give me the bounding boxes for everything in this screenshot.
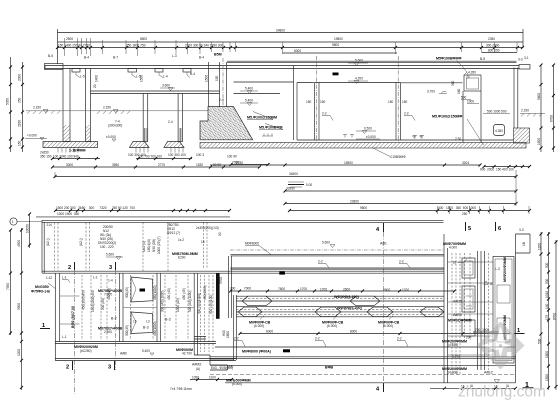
left bold labels [31, 276, 56, 294]
svg-text:7000: 7000 [244, 287, 251, 291]
dim row 6000 8000 [239, 330, 511, 336]
trapezoid plate upper [131, 277, 153, 302]
svg-text:A#Β: A#Β [120, 352, 127, 356]
svg-text:1a.2 (1): 1a.2 (1) [142, 241, 146, 252]
svg-text:150: 150 [320, 100, 326, 104]
svg-text:+0.000: +0.000 [27, 134, 37, 138]
svg-text:2:30: 2:30 [455, 137, 461, 141]
svg-text:2-2: 2-2 [399, 260, 404, 264]
channel lines [236, 296, 444, 317]
svg-text:±0.000: ±0.000 [106, 135, 116, 139]
svg-text:B-5: B-5 [48, 54, 53, 58]
left footing [43, 142, 98, 148]
svg-text:M0Φ8000 (Φ00А): M0Φ8000 (Φ00А) [242, 350, 272, 354]
gallery small boxes [462, 258, 475, 336]
svg-text:4.200: 4.200 [355, 77, 363, 81]
plan right edge [515, 253, 517, 383]
svg-text:150: 150 [18, 140, 22, 146]
lower bold labels with leaders [249, 316, 400, 329]
svg-text:2-2: 2-2 [397, 337, 402, 341]
svg-text:5.600: 5.600 [355, 59, 363, 63]
svg-text:L-3: L-3 [495, 267, 500, 271]
svg-text:A#D5: A#D5 [453, 300, 462, 304]
svg-text:450(1000): 450(1000) [153, 285, 157, 300]
level +0.000 mid [106, 135, 116, 142]
svg-text:100 700 700 100: 100 700 700 100 [138, 155, 162, 159]
svg-text:3700: 3700 [219, 277, 223, 284]
svg-text:B-4: B-4 [190, 72, 195, 76]
bottom slab [200, 143, 526, 149]
level 5.600 mid strip [322, 241, 335, 248]
svg-text:2-4: 2-4 [168, 120, 173, 124]
svg-text:1000 1900 350: 1000 1900 350 [57, 212, 79, 216]
svg-text:2-2: 2-2 [322, 112, 327, 116]
svg-text:100 - 220: 100 - 220 [100, 245, 114, 249]
svg-text:4500: 4500 [17, 240, 21, 247]
dim line row B [58, 37, 524, 42]
svg-text:5.600: 5.600 [106, 253, 114, 257]
svg-text:1500: 1500 [205, 75, 209, 82]
svg-text:750 1800 750: 750 1800 750 [126, 44, 146, 48]
svg-text:500: 500 [545, 262, 549, 268]
svg-text:5050: 5050 [6, 98, 10, 105]
footing sub texts [40, 151, 204, 159]
gallery inner verticals [478, 251, 485, 370]
centerline grid 4 [383, 232, 385, 384]
right wall footing block [514, 128, 530, 143]
plan bottom right edge [225, 382, 516, 384]
svg-text:1Β: 1Β [522, 242, 526, 246]
bold leader mid-right [432, 115, 484, 146]
section hook 2-2 b [404, 112, 415, 121]
svg-text:(6.000): (6.000) [327, 324, 337, 328]
middle wall W3 [205, 58, 227, 107]
svg-text:1400: 1400 [95, 75, 99, 82]
svg-text:1500 200 300 3650 300: 1500 200 300 3650 300 7320 250 90 120 70… [56, 206, 135, 210]
svg-text:2: 2 [68, 265, 71, 271]
ground line left with 2.150 [26, 106, 208, 114]
svg-text:150: 150 [215, 75, 219, 81]
svg-text:100 90: 100 90 [227, 155, 237, 159]
svg-text:N30 (2Β): N30 (2Β) [152, 239, 156, 252]
grid 1 left [40, 323, 50, 329]
grid labels 4 5 6 [376, 222, 524, 233]
left wall W1 [63, 69, 70, 142]
dim ticks row C [56, 46, 524, 49]
svg-text:250: 250 [462, 212, 468, 216]
plan bottom left edge [55, 342, 216, 344]
level 5.400 b [240, 99, 258, 106]
svg-text:140: 140 [545, 303, 549, 309]
svg-text:24800: 24800 [276, 29, 285, 33]
dim line 6000 row D [283, 49, 398, 53]
svg-text:(4.000): (4.000) [448, 371, 458, 375]
pad footing F2 [164, 142, 184, 148]
gallery dims [442, 328, 499, 375]
svg-text:2.150: 2.150 [33, 106, 41, 110]
svg-text:5.400: 5.400 [245, 87, 253, 91]
svg-text:1530: 1530 [196, 163, 203, 167]
svg-text:500: 500 [538, 338, 542, 344]
svg-text:1:12: 1:12 [46, 276, 52, 280]
svg-text:2.150: 2.150 [521, 109, 529, 113]
svg-text:1000: 1000 [467, 100, 474, 104]
svg-text:1500: 1500 [140, 75, 144, 82]
left dim verticals plan [6, 213, 31, 391]
svg-text:3300: 3300 [17, 303, 21, 310]
top slab [45, 64, 531, 70]
bottom right dim marks [430, 387, 516, 389]
svg-text:Β-2: Β-2 [111, 317, 117, 321]
dim 22800 row [284, 178, 518, 206]
level 5.400 a [240, 87, 258, 94]
svg-text:100 3: 100 3 [196, 153, 204, 157]
right wall [514, 68, 518, 129]
svg-text:L3: L3 [146, 320, 150, 324]
column C2 [178, 94, 183, 142]
junction steps [194, 256, 236, 370]
svg-text:34500: 34500 [289, 172, 298, 176]
svg-text:1600: 1600 [226, 331, 230, 338]
pit pedestal [463, 91, 481, 143]
small legend detail [288, 182, 312, 187]
svg-text:0.00: 0.00 [306, 183, 312, 187]
svg-text:5.400: 5.400 [245, 99, 253, 103]
svg-text:(6.000): (6.000) [254, 324, 264, 328]
svg-text:4.350: 4.350 [468, 71, 476, 75]
logo diamond [477, 322, 525, 370]
ground hatch 2 with 2.150 [97, 106, 130, 114]
svg-text:3000: 3000 [66, 163, 73, 167]
svg-text:300 (45)(1000): 300 (45)(1000) [197, 293, 201, 314]
svg-text:M5.Φ100@150ΜΦ: M5.Φ100@150ΜΦ [432, 115, 462, 119]
concrete wedge [200, 107, 253, 140]
wall marks right [412, 136, 423, 139]
dims near pit [451, 80, 479, 103]
svg-text:L-1: L-1 [93, 276, 98, 280]
svg-text:1010: 1010 [545, 291, 549, 298]
svg-text:1-4: 1-4 [108, 279, 113, 283]
trapezoid plate lower [131, 312, 153, 334]
svg-text:4.000: 4.000 [449, 246, 457, 250]
svg-text:3-3: 3-3 [518, 58, 523, 62]
dim 7080 [230, 161, 270, 167]
left vertical dim line [6, 57, 25, 152]
svg-text:100 2040 100 940: 100 2040 100 940 [53, 155, 79, 159]
long lines lower plan [210, 347, 516, 365]
svg-text:7600: 7600 [278, 287, 285, 291]
svg-text:|A|: |A| [196, 367, 200, 371]
grid 4 bottom [376, 383, 384, 393]
black wall [216, 273, 220, 319]
svg-text:3: 3 [109, 265, 112, 271]
svg-text:3.700: 3.700 [427, 90, 435, 94]
plan top dim chain [36, 206, 231, 217]
level 0.000 [356, 135, 380, 139]
piles under footings [58, 148, 183, 153]
apron bottom left [55, 342, 236, 361]
right vertical dim lines [537, 64, 555, 153]
plan top dim chain right [288, 206, 531, 216]
grid labels 2 3 top [68, 262, 116, 271]
level 4.200 [348, 77, 368, 84]
svg-text:700 1000: 700 1000 [475, 328, 489, 332]
svg-text:(4.150): (4.150) [448, 343, 458, 347]
gallery tall box [493, 257, 514, 364]
svg-text:300 (A5)(1000): 300 (A5)(1000) [161, 291, 165, 312]
overall dim line 24800 [58, 29, 524, 65]
svg-text:|A2 (): |A2 () [46, 238, 50, 246]
svg-text:6700: 6700 [550, 115, 554, 122]
dim 34500 row [54, 170, 518, 178]
bottom A marks [470, 384, 510, 388]
wedge leader label 2 [259, 124, 283, 130]
grid 2 3 bottom [66, 361, 115, 371]
svg-text:Β-3: Β-3 [165, 318, 171, 322]
wedge leader label 1 [247, 112, 277, 120]
svg-text:0.520: 0.520 [364, 127, 372, 131]
svg-text:10050: 10050 [26, 224, 30, 233]
svg-text:WΦ50Φ(6.200): WΦ50Φ(6.200) [337, 306, 362, 310]
svg-text:250: 250 [18, 97, 22, 103]
strip bottom edge [42, 271, 444, 273]
svg-text:8000: 8000 [350, 330, 357, 334]
svg-text:M5.Φ100ΒΦΜ: M5.Φ100ΒΦΜ [259, 126, 282, 130]
plan left edge [42, 220, 44, 273]
svg-text:2.150: 2.150 [103, 106, 111, 110]
cell dashed lanes [82, 275, 213, 352]
bold labels under line [242, 349, 290, 353]
svg-text:800 250: 800 250 [488, 49, 500, 53]
svg-text:33950: 33950 [286, 187, 295, 191]
footing dim chain left [51, 155, 237, 161]
svg-text:3.600: 3.600 [162, 84, 170, 88]
svg-text:7×4 7Φ8 11mm: 7×4 7Φ8 11mm [170, 387, 192, 391]
svg-text:5600: 5600 [537, 93, 541, 100]
svg-text:3-1: 3-1 [524, 56, 529, 60]
dim 500 1000 500 [483, 110, 510, 114]
hooks 2-2 lower [234, 337, 408, 347]
svg-text:B-7: B-7 [113, 56, 118, 60]
svg-text:150: 150 [388, 100, 394, 104]
svg-text:A#Ε2: A#Ε2 [484, 371, 493, 375]
pad footing F1 [130, 142, 150, 148]
bottom left labels [74, 345, 193, 356]
svg-text:1800: 1800 [545, 351, 549, 358]
plan top edge [42, 220, 444, 222]
svg-text:1500: 1500 [537, 138, 541, 145]
gallery bold labels left [448, 300, 472, 323]
cell B labels [98, 289, 123, 334]
svg-text:500: 500 [461, 96, 467, 100]
svg-text:1x.2: 1x.2 [178, 238, 184, 242]
grid bubble [10, 218, 42, 225]
svg-text:M0Φ200Φ3ММ: M0Φ200Φ3ММ [503, 257, 507, 282]
svg-text:500 1000 500: 500 1000 500 [487, 110, 507, 114]
svg-text:2600: 2600 [383, 288, 390, 292]
svg-text:2780: 2780 [236, 161, 243, 165]
svg-text:A#Ε5: A#Ε5 [453, 313, 462, 317]
svg-text:1500(1000)450: 1500(1000)450 [91, 290, 95, 312]
svg-text:1200: 1200 [17, 349, 21, 356]
svg-text:M#G350: M#G350 [35, 285, 49, 289]
svg-text:2350: 2350 [488, 37, 495, 41]
baffles upper row [242, 296, 380, 306]
dim line row C sub-dims [58, 43, 524, 47]
svg-text:200: 200 [230, 287, 236, 291]
svg-text:B-4: B-4 [84, 56, 89, 60]
svg-text:175: 175 [545, 314, 549, 320]
svg-text:2x300(200)(1/3): 2x300(200)(1/3) [196, 226, 219, 230]
svg-text:L-5: L-5 [80, 75, 85, 79]
svg-text:450 (45): 450 (45) [167, 288, 171, 300]
svg-text:1500: 1500 [545, 374, 549, 381]
level 5.600 strip [106, 253, 123, 260]
svg-text:5.400: 5.400 [142, 349, 150, 353]
svg-text:9800: 9800 [360, 206, 367, 210]
dim extension verticals [65, 38, 518, 56]
svg-text:2|: 2| [453, 261, 456, 265]
svg-text:B-4: B-4 [199, 56, 204, 60]
svg-text:350 150: 350 150 [40, 155, 52, 159]
svg-text:2: 2 [66, 365, 69, 371]
gallery cross lines [448, 262, 494, 355]
svg-text:±0.000: ±0.000 [366, 135, 376, 139]
section hook 2-2 a [322, 112, 333, 121]
partition wall P1 [306, 56, 326, 142]
centerlines grid 2 3 [75, 270, 116, 394]
svg-text:3550: 3550 [112, 163, 119, 167]
svg-text:1100: 1100 [209, 376, 216, 380]
svg-text:|A2 (): |A2 () [79, 238, 83, 246]
svg-text:2.600: 2.600 [104, 330, 112, 334]
level 0.520 [356, 127, 376, 134]
svg-text:M0Φ0DФ0ММ: M0Φ0DФ0ММ [448, 319, 472, 323]
svg-text:Β-3: Β-3 [143, 326, 149, 330]
black mark [279, 272, 285, 275]
inlet channel lines [234, 82, 294, 94]
svg-text:L-3: L-3 [172, 54, 177, 58]
ground right 2.150 [520, 109, 545, 117]
svg-text:M0Φ8000: M0Φ8000 [245, 242, 259, 246]
svg-text:1-1ΕΦΜΜ: 1-1ΕΦΜΜ [69, 149, 86, 153]
partition wall P2 [388, 56, 408, 142]
svg-text:2770: 2770 [158, 163, 165, 167]
channel dim row [229, 287, 456, 293]
svg-text:900 2002 150 400 100: 900 2002 150 400 100 [480, 168, 514, 172]
svg-text:20: 20 [93, 84, 97, 88]
svg-text:15500: 15500 [344, 161, 353, 165]
svg-text:500: 500 [545, 278, 549, 284]
svg-text:L-1: L-1 [62, 276, 67, 280]
svg-text:5: 5 [468, 226, 471, 232]
beam level lines [91, 91, 220, 94]
svg-text:L5: L5 [133, 320, 137, 324]
under-slab beam stubs [72, 69, 195, 79]
svg-text:L-1: L-1 [62, 335, 67, 339]
svg-text:500 (A5): 500 (A5) [101, 298, 105, 310]
svg-text:Β5Μ: Β5Μ [214, 53, 222, 57]
tank floor line left-mid [297, 82, 314, 84]
svg-text:(#C250): (#C250) [80, 349, 92, 353]
A triangle marker [484, 281, 493, 286]
bold label strip [172, 252, 198, 260]
svg-text:300(45): 300(45) [125, 287, 129, 298]
svg-text:WΦ50Φ(6.200): WΦ50Φ(6.200) [334, 295, 359, 299]
svg-text:2-4: 2-4 [219, 98, 224, 102]
column C1 [143, 94, 148, 142]
svg-text:150: 150 [402, 100, 408, 104]
svg-text:2160: 2160 [18, 120, 22, 127]
svg-text:15: 15 [201, 240, 205, 244]
dim row right 800/250 [482, 49, 518, 53]
svg-text:1: 1 [12, 220, 14, 224]
svg-text:42.700: 42.700 [182, 352, 192, 356]
gallery left wall [444, 234, 448, 383]
right dim verticals plan [538, 232, 558, 390]
svg-text:6000: 6000 [266, 330, 273, 334]
pit leader bold label [436, 57, 468, 75]
svg-text:7350: 7350 [6, 283, 10, 290]
detail bubble A350 [494, 125, 505, 136]
baffles lower row [238, 307, 444, 317]
slab top line [297, 139, 514, 141]
dim 33950 row [284, 187, 518, 193]
svg-text:(6.000): (6.000) [383, 324, 393, 328]
small wall marks [343, 135, 424, 139]
svg-text:L-4: L-4 [163, 75, 168, 79]
C15 slab leader [372, 148, 406, 160]
svg-text:90: 90 [218, 232, 222, 236]
svg-text:ΒΦΒ: ΒΦΒ [325, 366, 334, 370]
svg-text:2-2: 2-2 [318, 260, 323, 264]
black label mark [333, 73, 339, 76]
svg-text:2020 300 90 240 1290 300: 2020 300 90 240 1290 300 [185, 44, 223, 48]
M08000 leader [245, 242, 271, 255]
svg-text:3-3: 3-3 [519, 228, 524, 232]
svg-text:ΒΦ12 (7): ΒΦ12 (7) [167, 231, 180, 235]
svg-text:1700: 1700 [402, 288, 409, 292]
svg-text:7.900: 7.900 [104, 293, 112, 297]
left wall W2 [86, 69, 91, 142]
svg-text:6: 6 [498, 226, 501, 232]
svg-text:3: 3 [108, 365, 111, 371]
right top block [516, 234, 531, 253]
svg-text:3204: 3204 [462, 161, 469, 165]
cell tie lines [60, 296, 194, 324]
svg-text:2000: 2000 [18, 74, 22, 81]
svg-text:160: 160 [457, 88, 461, 94]
level +0.000 left [25, 134, 47, 141]
svg-text:19800: 19800 [334, 37, 343, 41]
svg-text:2-2: 2-2 [404, 112, 409, 116]
dashed boundary [210, 374, 516, 376]
svg-text:8500: 8500 [140, 37, 147, 41]
gallery dashed pipes [452, 253, 489, 375]
dim 2780/15500/3204 row [210, 161, 531, 172]
svg-text:2-2: 2-2 [234, 337, 239, 341]
svg-text:1700: 1700 [300, 287, 307, 291]
svg-text:M5.Φ100@150ΒΜ: M5.Φ100@150ΒΜ [247, 116, 277, 120]
gallery top labels [443, 242, 467, 265]
svg-text:4.350: 4.350 [495, 129, 503, 133]
ground ticks mid [262, 134, 273, 137]
svg-text:450(1000): 450(1000) [203, 285, 207, 300]
svg-text:310: 310 [451, 80, 455, 86]
svg-text:C15ΒΦΜΦ: C15ΒΦΜΦ [390, 155, 406, 159]
svg-text:150 1400 150 90 2750: 150 1400 150 90 2750 [58, 44, 90, 48]
svg-text:2500: 2500 [66, 37, 73, 41]
